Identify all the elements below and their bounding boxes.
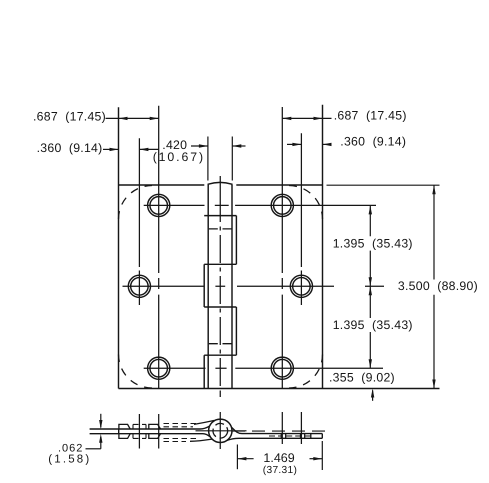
right leaf tip edge (321, 434, 323, 439)
pin circle (broken) (211, 421, 231, 441)
knuckle barrel column (204, 182, 236, 388)
knuckle seam 4 (204, 354, 236, 356)
right leaf hidden line (dashed) (232, 431, 330, 436)
svg-text:1.395 (35.43): 1.395 (35.43) (333, 236, 413, 250)
svg-text:3.500 (88.90): 3.500 (88.90) (398, 279, 478, 293)
dimension .360 right (middle-hole column to edge) (287, 143, 332, 146)
right leaf surfaces (227, 427, 322, 440)
left leaf tip edge (118, 429, 120, 434)
hole bottom-left (148, 357, 170, 379)
svg-text:.360 (9.14): .360 (9.14) (37, 141, 103, 155)
leaf-to-barrel transition curves (190, 420, 215, 441)
dimension .062 (leaf thickness) (86, 414, 103, 449)
screw holes: 2 concentric circles each (128, 194, 312, 379)
dimension .687 right (top-hole column to edge) (282, 117, 331, 120)
label .062 / (1.58) (48, 443, 91, 466)
svg-text:1.395 (35.43): 1.395 (35.43) (333, 318, 413, 332)
svg-text:.687 (17.45): .687 (17.45) (334, 108, 407, 122)
vertical centerlines through hole columns (139, 106, 301, 449)
dimension texts (33, 108, 478, 384)
centerline column x=282.3 (top/bottom holes, right) (281, 107, 283, 389)
below (119, 434, 130, 439)
label 1.469 / (37.31) (263, 451, 297, 476)
left leaf surfaces + .062 extension tails (90, 426, 211, 437)
barrel circle (edge view) (209, 419, 232, 442)
svg-text:.687 (17.45): .687 (17.45) (33, 109, 106, 123)
svg-text:.360 (9.14): .360 (9.14) (340, 135, 406, 149)
corner arc bottom-right (289, 355, 323, 389)
svg-text:(1.58): (1.58) (48, 453, 91, 465)
hinge leaf plate outline (plan view) (119, 105, 440, 389)
hole top-left (148, 194, 170, 216)
dashed radius-corner arcs (5/8 in radius option) (119, 186, 323, 389)
right leaf hole edges (ticks) (281, 434, 311, 439)
dimension .355 (bottom hole row to bottom edge), outside arrow below (371, 389, 374, 401)
plate right edge + extension up to .687 dimension (322, 105, 324, 389)
dimension .687 left (edge to top-hole column) (106, 117, 159, 120)
corner arc bottom-left (119, 355, 153, 389)
knuckle seam 2 (204, 263, 236, 265)
barrel wide right edge (knuckle 4) (235, 307, 237, 355)
dimension line 1.395 chain (hole row spacing) (369, 205, 372, 368)
svg-text:(10.67): (10.67) (153, 150, 205, 164)
hole bottom-right (271, 357, 293, 379)
knuckle seam 1 (204, 215, 236, 217)
row centerline y=368.2 (bottom holes) (144, 367, 383, 369)
right side: extension line from plate top corner (327, 184, 440, 186)
hole top-right (271, 194, 293, 216)
svg-text:1.469: 1.469 (263, 451, 294, 465)
corner arc top-right (289, 186, 323, 220)
dimension 1.469 (pin center to leaf tip) (237, 441, 322, 470)
left leaf countersink pockets (solid) above (119, 424, 161, 438)
centerline column x=158.7 (top/bottom holes, left) (158, 106, 160, 389)
corner arc top-left (119, 186, 153, 220)
barrel wide left edge (knuckle 3) (203, 264, 205, 307)
barrel right seam line (231, 185, 233, 389)
dimension .420 (barrel width) with extension lines (191, 137, 246, 181)
pin cap dome at top (208, 182, 232, 185)
hidden knuckle seam dashes (209, 229, 232, 344)
centerline column x=139.4 (middle-row holes, left) (138, 138, 140, 305)
barrel horizontal centerline (196, 430, 247, 432)
dimension .360 left (edge to middle-hole column) (103, 148, 159, 151)
horizontal centerlines through hole rows (123, 205, 385, 368)
dimension line 3.500 (overall height) (432, 185, 435, 388)
plate left edge + extension up to .687 dimension (118, 107, 120, 388)
knuckle seam 3 (204, 306, 236, 308)
row centerline y=286.3 (middle holes) (123, 285, 385, 287)
svg-text:(37.31): (37.31) (263, 465, 297, 476)
hole middle-left (128, 275, 150, 297)
hole middle-right (290, 275, 312, 297)
plate top edge (119, 184, 323, 186)
svg-text:.355 (9.02): .355 (9.02) (329, 370, 395, 384)
barrel wide left edge (knuckle 5) (203, 355, 205, 388)
left leaf hidden pockets (dashed) (133, 424, 196, 442)
pin centerline (vertical, through barrel and edge view) (219, 176, 221, 449)
barrel left seam line (207, 185, 209, 389)
centerline column x=301.4 (middle-row holes, right) (300, 133, 302, 305)
barrel wide right edge (knuckle 2) (235, 216, 237, 265)
plate bottom edge (extended right to 3.500 dimension line) (119, 388, 440, 390)
row centerline y=205.4 (top holes) (144, 204, 376, 206)
